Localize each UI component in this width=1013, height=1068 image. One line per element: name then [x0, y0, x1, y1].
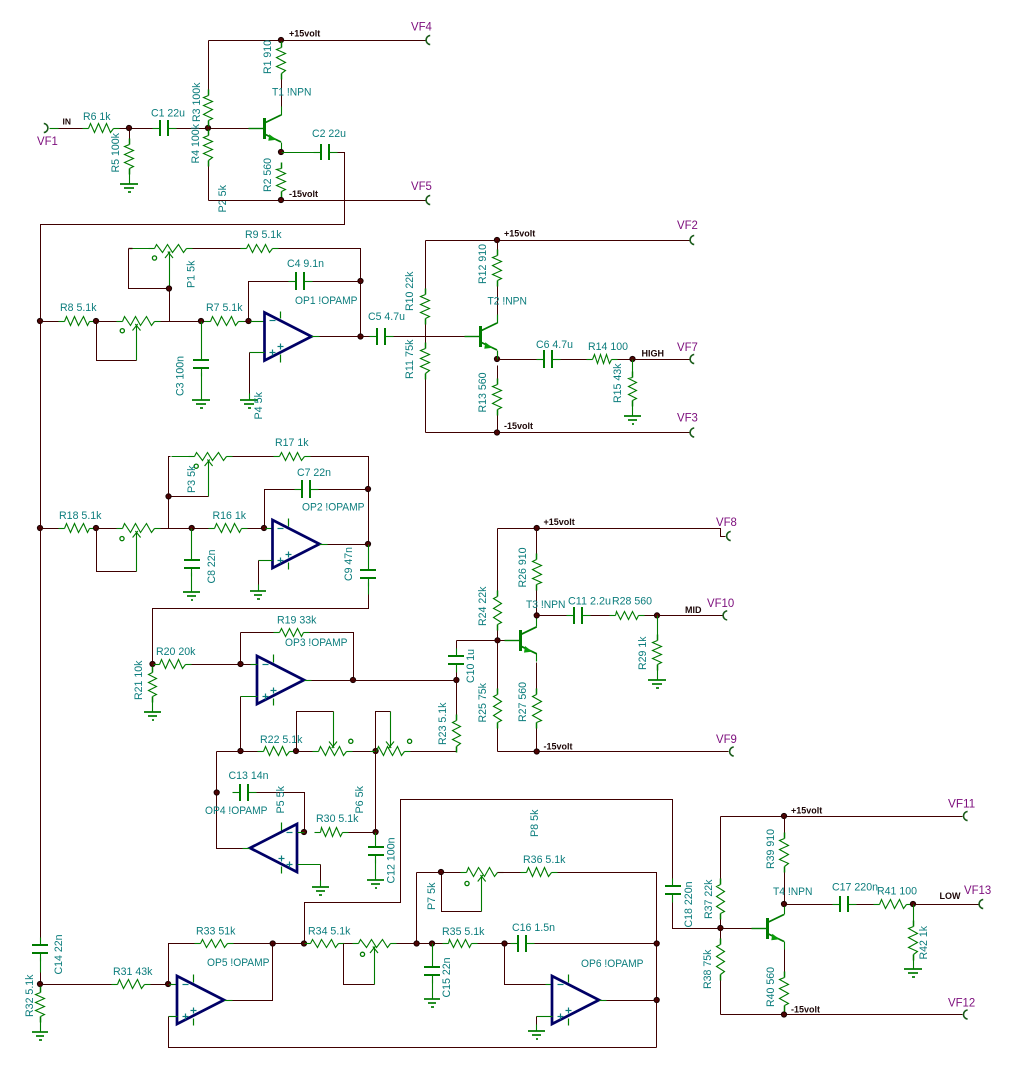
wire +15 rail T3: [498, 529, 726, 537]
capacitor C5: [370, 328, 394, 345]
svg-text:R16 1k: R16 1k: [213, 510, 247, 522]
wire C6 to R14: [561, 359, 588, 361]
wire P1 left corner: [129, 248, 133, 250]
wire C4 left wire: [249, 282, 289, 322]
wire pot to C3 node: [161, 321, 202, 323]
junction R22/pot1 node: [293, 748, 298, 753]
resistor R21: [133, 660, 157, 702]
wire R36 right wire: [558, 873, 657, 1048]
capacitor C11: [567, 596, 612, 625]
wire OP6 + stub: [537, 1016, 553, 1018]
label P8 label: [529, 809, 541, 837]
wire T4 emitter to R40: [784, 950, 786, 972]
potentiometer P7: [426, 868, 504, 912]
wire C8 top lead: [191, 529, 193, 553]
resistor R37: [703, 879, 725, 920]
wire C17 to R41: [857, 904, 874, 906]
transistor T2: [465, 296, 528, 358]
capacitor C6: [536, 339, 573, 368]
wire P7 left wire: [417, 872, 442, 874]
resistor R1: [262, 40, 286, 80]
wire R9 to corner: [279, 249, 361, 337]
resistor R13: [477, 373, 502, 416]
svg-text:-15volt: -15volt: [544, 742, 573, 752]
ground R21 ground: [144, 706, 161, 721]
label P2: [217, 185, 229, 213]
terminal flag VF13: [964, 885, 991, 909]
resistor R31: [112, 966, 153, 989]
terminal flag VF10: [707, 598, 734, 620]
svg-text:C12 100n: C12 100n: [386, 838, 398, 884]
junction C13 left node: [214, 790, 219, 795]
ground R42 ground: [904, 963, 922, 978]
resistor R11: [404, 339, 430, 379]
junction fb/C16 node: [654, 941, 659, 946]
resistor R16: [209, 510, 248, 533]
wire R14 to HIGH node: [618, 359, 633, 361]
capacitor C2: [312, 128, 346, 160]
resistor R22: [258, 734, 303, 756]
capacitor C18: [665, 879, 695, 928]
svg-text:-15volt: -15volt: [289, 189, 318, 199]
resistor R40: [765, 967, 789, 1012]
wire R10-R11 gap: [425, 325, 427, 343]
potentiometer P1: [129, 245, 198, 289]
resistor R7: [205, 302, 245, 326]
svg-text:OP1 !OPAMP: OP1 !OPAMP: [295, 295, 358, 307]
wire R36 left wire: [498, 872, 521, 874]
junction +15/R1 node: [278, 37, 283, 42]
wire P7 vert to R34 line: [416, 873, 418, 944]
wire P7 lead wire: [442, 872, 461, 874]
wire P1 to R9: [193, 248, 241, 250]
wire C4 right wire: [313, 281, 361, 283]
wire pot node to R7: [202, 321, 205, 323]
wire collector to C17: [785, 904, 833, 906]
resistor R36: [521, 854, 566, 877]
wire OP3 inv stub: [251, 664, 258, 666]
wire R32 to ground: [40, 1017, 42, 1025]
wire R40 to -15: [784, 1012, 786, 1015]
wire OP5 fb vert: [169, 944, 195, 985]
wire OP1 + stub: [250, 352, 265, 354]
junction C4 right node: [358, 278, 363, 283]
svg-text:VF11: VF11: [948, 799, 975, 811]
label +15volt T2: [504, 229, 535, 239]
ground R29 ground: [648, 674, 666, 689]
wire R34 to pot: [345, 943, 353, 945]
svg-text:R29 1k: R29 1k: [637, 636, 649, 670]
capacitor C17: [832, 882, 878, 913]
wire -15 rail T4: [721, 1014, 963, 1016]
wire C5 to T2 base: [394, 336, 466, 338]
wire rail to R8: [41, 321, 59, 323]
junction P3 wiper node: [166, 494, 171, 499]
wire C13 right wire: [257, 793, 305, 833]
capacitor C14: [32, 935, 65, 975]
resistor R27: [517, 682, 542, 729]
svg-text:P8 5k: P8 5k: [529, 809, 541, 837]
resistor R29: [637, 635, 662, 671]
wire base node down to R25: [497, 641, 499, 689]
wire R33R34 segment: [273, 943, 305, 945]
label P6 label: [354, 786, 366, 814]
wire C9 top lead: [368, 545, 370, 563]
junction MID node: [654, 613, 659, 618]
svg-text:R21 10k: R21 10k: [133, 660, 145, 700]
wire C12 top lead: [375, 833, 377, 840]
capacitor C10: [448, 649, 477, 684]
junction R6/R5/C1 node: [126, 125, 131, 130]
wire rail down to R24: [497, 529, 499, 592]
wire OP2 out wire: [328, 544, 369, 546]
svg-text:VF7: VF7: [677, 342, 698, 354]
svg-text:-15volt: -15volt: [791, 1005, 820, 1015]
svg-text:P4 5k: P4 5k: [253, 392, 265, 420]
wire R37 to base node: [720, 920, 722, 929]
label -15volt T1: [289, 189, 318, 199]
junction P7 left node: [438, 869, 443, 874]
junction T4 collector node: [781, 901, 786, 906]
potentiometer P(R18 line): [97, 524, 161, 572]
svg-text:R25 75k: R25 75k: [477, 683, 489, 723]
svg-text:OP5 !OPAMP: OP5 !OPAMP: [207, 957, 270, 969]
resistor R38: [702, 939, 725, 990]
wire R29 top lead: [657, 616, 659, 635]
svg-text:HIGH: HIGH: [642, 349, 665, 359]
junction P7 vert node: [414, 941, 419, 946]
resistor R41: [874, 886, 918, 909]
wire pot2/R30 vert: [375, 752, 377, 833]
svg-text:+15volt: +15volt: [289, 29, 320, 39]
svg-text:R14 100: R14 100: [588, 341, 628, 353]
wire +15 rail T4: [721, 816, 963, 818]
wire -15 rail T3: [498, 751, 729, 753]
wire collector to C11: [537, 615, 567, 617]
wire P1 left lead: [132, 248, 149, 250]
label +15volt T3: [544, 517, 575, 527]
wire OP1 out to C5: [320, 336, 370, 338]
svg-text:P3 5k: P3 5k: [186, 465, 198, 493]
junction C8 node: [189, 525, 194, 530]
junction pot2 left node: [373, 748, 378, 753]
terminal flag VF2: [677, 220, 698, 245]
wire R11 to -15: [425, 380, 427, 433]
terminal flag VF5: [411, 181, 432, 205]
wire pot1 to pot2: [353, 751, 377, 753]
wire C8node to R16: [192, 528, 209, 530]
label MID: [685, 605, 702, 615]
resistor R32: [24, 974, 45, 1022]
resistor R12: [477, 244, 502, 287]
junction R19/out node: [350, 677, 355, 682]
svg-text:R8 5.1k: R8 5.1k: [60, 302, 97, 314]
svg-text:VF10: VF10: [707, 598, 734, 610]
svg-text:R35 5.1k: R35 5.1k: [442, 926, 485, 938]
transistor T4: [752, 886, 813, 950]
wire OP3 out stub: [305, 680, 312, 682]
label HIGH: [642, 349, 665, 359]
ground R32 ground: [32, 1025, 48, 1041]
junction R20/R21 node: [150, 661, 155, 666]
wire emitter to C2: [282, 152, 314, 154]
wire C7 right wire: [319, 489, 369, 491]
resistor R18: [59, 510, 102, 533]
svg-text:R7 5.1k: R7 5.1k: [206, 302, 243, 314]
svg-text:+15volt: +15volt: [504, 229, 535, 239]
svg-text:C6 4.7u: C6 4.7u: [536, 339, 573, 351]
svg-text:VF2: VF2: [677, 220, 698, 232]
terminal flag VF12: [948, 998, 975, 1020]
svg-text:VF3: VF3: [677, 413, 698, 425]
wire T3 base wire: [498, 640, 505, 642]
junction R27/-15 node: [534, 749, 539, 754]
junction C7 right node: [365, 486, 370, 491]
wire pot to R35 nodes: [397, 943, 443, 945]
capacitor C3: [175, 353, 210, 397]
wire R33 to out node: [234, 943, 273, 945]
svg-text:R41 100: R41 100: [877, 886, 917, 898]
wire -15 rail T1: [209, 200, 426, 202]
svg-text:P1 5k: P1 5k: [186, 260, 198, 288]
svg-text:VF13: VF13: [964, 885, 991, 897]
wire C15 bottom lead: [432, 980, 434, 993]
wire MID node to VF10: [658, 615, 723, 617]
svg-text:C9 47n: C9 47n: [343, 547, 355, 581]
label LOW: [940, 891, 961, 901]
svg-text:C18 220n: C18 220n: [683, 882, 695, 928]
terminal flag VF1: [37, 123, 58, 148]
resistor R4: [190, 124, 213, 167]
junction OP5 inv node: [166, 981, 171, 986]
potentiometer P(R34 line): [344, 940, 397, 985]
wire R2 bottom: [281, 198, 283, 201]
op-amp OP2: [273, 502, 365, 570]
ground C15 ground: [424, 993, 440, 1008]
wire OP2 + stub: [259, 560, 273, 562]
svg-text:P6 5k: P6 5k: [354, 786, 366, 814]
capacitor C15: [424, 958, 453, 998]
wire C18 bottom wire: [673, 903, 721, 929]
wire C9 bottom lead: [368, 583, 370, 595]
svg-text:R4 100k: R4 100k: [190, 124, 202, 164]
capacitor C1: [151, 108, 185, 137]
wire OP1 inv stub: [251, 321, 265, 323]
junction T4 base node: [718, 925, 723, 930]
wire OP4 inv stub: [298, 832, 305, 834]
svg-text:VF1: VF1: [37, 136, 58, 148]
svg-text:C5 4.7u: C5 4.7u: [368, 311, 405, 323]
svg-text:T2 !NPN: T2 !NPN: [488, 296, 528, 308]
resistor R17: [274, 437, 311, 461]
op-amp OP4: [205, 805, 297, 874]
wire R23 bottom lead: [456, 747, 458, 752]
resistor R25: [477, 683, 502, 729]
potentiometer P3: [169, 453, 233, 497]
wire OP3 out wire: [312, 680, 457, 682]
wire R15 top lead: [632, 360, 634, 372]
label P5 label: [275, 786, 287, 814]
svg-text:R30 5.1k: R30 5.1k: [316, 813, 359, 825]
ground C8 ground: [183, 586, 200, 601]
junction R13/-15 node: [494, 430, 499, 435]
wire C10 to base node: [457, 640, 498, 642]
svg-text:VF12: VF12: [948, 998, 975, 1010]
wire R26 to collector: [536, 591, 538, 620]
wire LOW node to VF13: [914, 904, 979, 906]
wire R12 to T2 collector: [497, 287, 499, 316]
wire R1 to T1 collector: [281, 80, 283, 108]
wire R16 to OP2: [248, 528, 266, 530]
wire R22line to OP4 vert: [217, 751, 241, 753]
terminal flag VF4: [411, 22, 432, 45]
wire C15 top lead: [432, 944, 434, 960]
label +15volt T4: [791, 806, 822, 816]
resistor R19: [274, 615, 317, 637]
wire R13 top lead: [497, 366, 499, 379]
wire R19 left wire: [241, 632, 274, 634]
resistor R26: [517, 548, 542, 591]
svg-text:R40 560: R40 560: [765, 967, 777, 1007]
wire P3 left corner: [169, 457, 171, 497]
wire OP4 + drop: [320, 865, 322, 881]
resistor R5: [110, 133, 134, 175]
junction rail/R8 node: [37, 318, 42, 323]
junction R18/pot node: [93, 525, 98, 530]
wire pot2 to R23: [411, 751, 457, 753]
junction +15/R12 node: [494, 237, 499, 242]
junction T3 base node: [495, 638, 500, 643]
wire R6 to C1: [120, 128, 157, 130]
junction OP4 inv node: [301, 829, 306, 834]
svg-text:R12 910: R12 910: [477, 244, 489, 284]
junction HIGH node: [630, 356, 635, 361]
resistor R3: [191, 82, 213, 126]
svg-text:+15volt: +15volt: [791, 806, 822, 816]
wire C11 to R28: [591, 615, 610, 617]
wire P1 drop: [169, 289, 171, 322]
wire OP5 out stub: [225, 1000, 233, 1002]
label -15volt T4: [791, 1005, 820, 1015]
wire OP3 + drop: [240, 697, 242, 752]
svg-text:-15volt: -15volt: [504, 421, 533, 431]
wire R7 to OP1: [245, 321, 251, 323]
resistor R6: [83, 111, 120, 133]
wire R27 to -15: [536, 729, 538, 752]
wire OP6 out stub: [600, 1000, 607, 1002]
resistor R8: [59, 302, 97, 326]
wire R21 to ground: [152, 697, 154, 706]
capacitor C8: [184, 550, 218, 584]
op-amp OP5: [177, 957, 270, 1026]
wire R18pot left lead: [97, 528, 117, 530]
ground OP6 ground: [528, 1025, 545, 1040]
svg-text:R38 75k: R38 75k: [702, 949, 714, 989]
transistor T1: [249, 87, 312, 150]
svg-text:C13 14n: C13 14n: [229, 770, 269, 782]
terminal flag VF11: [948, 799, 975, 821]
junction LOW node: [910, 901, 915, 906]
wire pot to C8 node: [161, 528, 192, 530]
wire R15 to ground: [632, 401, 634, 410]
junction R40/-15 node: [781, 1012, 786, 1017]
wire OP6 + drop: [536, 1017, 538, 1025]
resistor R42: [909, 921, 931, 961]
resistor R15: [612, 363, 637, 406]
svg-text:R33 51k: R33 51k: [196, 926, 236, 938]
svg-text:T3 !NPN: T3 !NPN: [526, 599, 566, 611]
wire C14 to R31 node: [40, 973, 42, 985]
wire left rail to C14: [40, 322, 42, 529]
wire rail to R31: [41, 984, 112, 986]
terminal flag VF3: [677, 413, 698, 438]
junction OP6 out node: [654, 997, 659, 1002]
svg-text:+15volt: +15volt: [544, 517, 575, 527]
wire C2 to drop: [41, 153, 345, 322]
ground R5 ground: [120, 178, 138, 193]
wire P8 net wire: [305, 800, 673, 944]
wire OP2 + to ground: [258, 561, 260, 585]
resistor R10: [404, 271, 430, 324]
svg-text:R15 43k: R15 43k: [612, 363, 624, 403]
wire R13 to -15: [497, 416, 499, 433]
svg-text:R42 1k: R42 1k: [918, 926, 930, 960]
junction OP2 out node: [365, 541, 370, 546]
wire C3 to ground: [201, 373, 203, 394]
label IN: [63, 116, 72, 126]
wire rail down to R10: [425, 241, 427, 289]
wire R12 top lead: [497, 241, 499, 250]
resistor R20: [154, 646, 196, 669]
svg-text:C16 1.5n: C16 1.5n: [512, 922, 555, 934]
resistor R9: [241, 229, 282, 253]
wire OP6 inv vert: [505, 944, 546, 985]
svg-text:VF5: VF5: [411, 181, 432, 193]
svg-text:R6 1k: R6 1k: [83, 111, 111, 123]
svg-text:C10 1u: C10 1u: [465, 649, 477, 683]
svg-text:C14 22n: C14 22n: [53, 935, 65, 975]
wire fb left vert: [240, 633, 242, 665]
svg-text:R17 1k: R17 1k: [275, 437, 309, 449]
svg-text:C17 220n: C17 220n: [832, 882, 878, 894]
junction R33/R34 node: [270, 941, 275, 946]
wire VF1 stub: [50, 128, 59, 130]
wire R42 to ground: [913, 955, 915, 963]
resistor R34: [305, 926, 351, 948]
capacitor C9: [343, 547, 376, 587]
svg-text:R31 43k: R31 43k: [113, 966, 153, 978]
wire C8 to ground: [191, 573, 193, 586]
svg-text:R37 22k: R37 22k: [703, 879, 715, 919]
wire rail to R3: [208, 41, 210, 90]
svg-text:C11 2.2u: C11 2.2u: [568, 596, 611, 608]
wire T2 collector wire: [497, 315, 499, 324]
resistor R2: [262, 158, 286, 198]
label -15volt T2: [504, 421, 533, 431]
wire R39 to collector: [784, 873, 786, 904]
wire R35 to OP6 node: [478, 943, 511, 945]
wire R41 to LOW node: [913, 904, 914, 906]
junction R22 left node: [238, 748, 243, 753]
svg-text:R19 33k: R19 33k: [277, 615, 317, 627]
junction C3 node: [198, 318, 203, 323]
wire OP3 + stub: [241, 696, 258, 698]
svg-text:C3 100n: C3 100n: [175, 356, 187, 396]
wire OP1 out stub: [312, 336, 320, 338]
capacitor C4: [287, 258, 324, 290]
wire R38 to -15: [720, 981, 722, 1015]
wire R19 right wire: [310, 633, 354, 681]
